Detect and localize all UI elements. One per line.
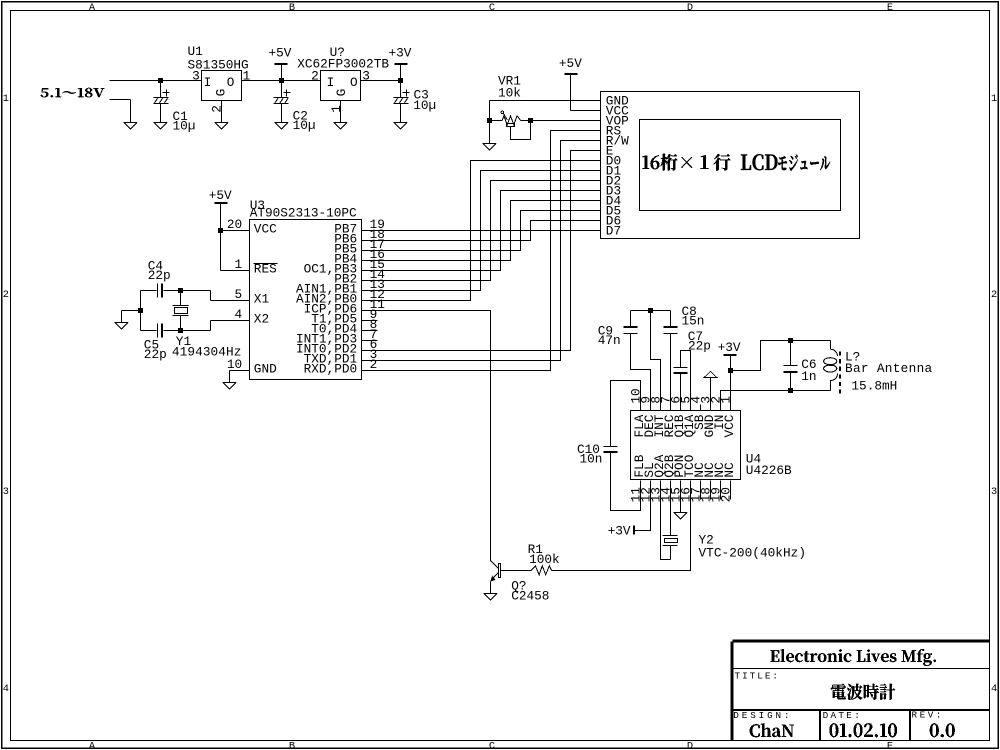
svg-text:15n: 15n xyxy=(682,314,705,329)
svg-text:3: 3 xyxy=(192,69,200,84)
wire stub T1,PD5 xyxy=(362,320,378,322)
power +5V at U3 xyxy=(209,188,232,231)
transistor Q? xyxy=(484,560,500,600)
svg-text:1: 1 xyxy=(991,93,997,105)
label C10 xyxy=(577,442,602,467)
svg-text:10n: 10n xyxy=(580,451,603,466)
wire PB1-D1 xyxy=(362,171,601,291)
capacitor C7 xyxy=(674,351,691,411)
svg-text:22p: 22p xyxy=(688,338,711,353)
label U4 refdes xyxy=(746,451,792,477)
label company name xyxy=(770,649,936,666)
node VR1 left xyxy=(487,118,492,123)
wire R1 to base xyxy=(501,570,532,572)
capacitor C5 xyxy=(141,324,181,338)
wire C10 to FLB pin11 xyxy=(611,453,641,511)
wire X2 route xyxy=(181,330,211,332)
svg-text:I: I xyxy=(204,75,212,90)
svg-text:1: 1 xyxy=(235,257,243,272)
svg-text:2: 2 xyxy=(3,289,9,301)
capacitor C8 xyxy=(664,311,678,411)
row labels left xyxy=(3,93,9,695)
svg-text:15.8mH: 15.8mH xyxy=(851,378,897,393)
svg-text:DESIGN:: DESIGN: xyxy=(733,710,789,721)
wire U1 pin2 to ground xyxy=(215,101,228,130)
wire input return xyxy=(110,99,131,101)
svg-text:10µ: 10µ xyxy=(413,98,436,113)
svg-text:GND: GND xyxy=(254,361,277,376)
title block frame xyxy=(732,641,990,741)
svg-text:47n: 47n xyxy=(598,333,621,348)
svg-text:22p: 22p xyxy=(144,347,167,362)
stub NC pin18 xyxy=(710,481,712,500)
label C9 xyxy=(598,323,621,348)
node Y1 bottom xyxy=(178,328,183,333)
svg-text:O: O xyxy=(350,75,358,90)
wire IN pin2 to tank bottom xyxy=(721,391,831,411)
svg-text:I: I xyxy=(327,75,335,90)
label U1 refdes xyxy=(188,44,249,73)
label date value xyxy=(830,723,897,737)
svg-text:D: D xyxy=(687,2,693,14)
svg-text:B: B xyxy=(289,2,295,14)
capacitor C6 xyxy=(784,341,798,391)
column labels top xyxy=(89,2,893,14)
wire PB4-D4 xyxy=(362,201,601,261)
label C7 xyxy=(688,329,711,354)
wire LCD VCC xyxy=(571,110,601,112)
svg-text:2: 2 xyxy=(311,69,319,84)
U4 top pin numbers xyxy=(629,388,734,403)
svg-text:5: 5 xyxy=(235,287,243,302)
wire X1 route xyxy=(181,290,211,292)
svg-text:100k: 100k xyxy=(529,552,560,567)
stub NC pin19 xyxy=(720,481,722,500)
regulator U1 S81350HG xyxy=(202,71,242,101)
power +3V at U4 VCC xyxy=(718,340,741,411)
wire crystal left leg xyxy=(140,291,142,331)
svg-text:4: 4 xyxy=(235,307,243,322)
power +3V at SL pin12 xyxy=(608,481,651,539)
svg-text:3: 3 xyxy=(991,486,997,498)
wire INT0,PD2 to LCD E xyxy=(362,151,601,351)
wire PB5-D5 xyxy=(362,211,601,251)
svg-text:1: 1 xyxy=(719,396,734,404)
svg-text:E: E xyxy=(887,2,893,14)
node C6 bottom xyxy=(788,388,793,393)
node VR1 right xyxy=(528,118,533,123)
capacitor C9 xyxy=(624,311,651,411)
U4 bottom pin numbers xyxy=(629,487,734,503)
wire LCD GND xyxy=(490,100,601,102)
svg-text:C: C xyxy=(489,2,495,14)
svg-text:D7: D7 xyxy=(606,224,621,239)
wire PB6-D6 xyxy=(362,221,601,241)
wire DEC to INT pin8 xyxy=(651,311,661,411)
ground crystal xyxy=(115,311,140,330)
svg-text:1: 1 xyxy=(329,105,344,113)
svg-text:1n: 1n xyxy=(801,369,816,384)
label U? refdes xyxy=(297,45,389,71)
node rail/C1 junction xyxy=(158,78,163,83)
ground input xyxy=(124,100,137,130)
svg-text:+3V: +3V xyxy=(389,46,412,61)
svg-text:A: A xyxy=(89,741,96,750)
svg-text:G: G xyxy=(334,89,349,97)
wire U1 out to U? xyxy=(242,80,321,82)
node Y1 top xyxy=(178,288,183,293)
svg-text:10µ: 10µ xyxy=(173,119,196,134)
wire TCO pin16 to R1 xyxy=(552,481,691,571)
wire Q2A pin13 to Y2 xyxy=(661,481,671,560)
svg-text:VCC: VCC xyxy=(722,414,737,437)
ground U4 GND pin3 xyxy=(704,371,717,410)
label Y2 xyxy=(699,532,807,560)
svg-text:RXD,PD0: RXD,PD0 xyxy=(304,361,358,376)
capacitor C10 xyxy=(604,446,618,448)
capacitor C2 xyxy=(274,81,291,130)
svg-text:A: A xyxy=(89,2,96,14)
capacitor C1 xyxy=(154,81,170,130)
svg-text:+5V: +5V xyxy=(209,188,232,203)
crystal Y1 xyxy=(173,291,189,331)
resistor R1 xyxy=(531,566,552,575)
node +5V/VCC junction xyxy=(218,228,223,233)
svg-text:C: C xyxy=(489,741,495,750)
label R1 xyxy=(528,542,560,567)
svg-text:NC: NC xyxy=(722,462,737,478)
wire PB7 to LCD D7 xyxy=(362,230,601,232)
svg-text:U4226B: U4226B xyxy=(746,463,792,478)
wire DEC rail xyxy=(631,310,671,312)
radio ic U4 body xyxy=(631,411,741,480)
node rail/C2 junction xyxy=(279,78,284,83)
label U3 refdes xyxy=(250,198,357,221)
label C3 value xyxy=(413,87,436,112)
crystal Y2 xyxy=(663,481,678,560)
label Q? xyxy=(511,579,549,604)
wire VCC pin20 xyxy=(221,230,250,232)
lcd pin names xyxy=(606,94,629,239)
wire stub T0,PD4 xyxy=(362,330,378,332)
capacitor C3 xyxy=(394,81,410,130)
label rev value xyxy=(930,723,955,737)
svg-text:E: E xyxy=(887,741,893,750)
svg-text:10µ: 10µ xyxy=(293,118,316,133)
svg-text:3: 3 xyxy=(362,69,370,84)
svg-text:4: 4 xyxy=(991,683,997,695)
svg-text:+3V: +3V xyxy=(718,340,741,355)
row labels right xyxy=(991,93,997,695)
svg-text:C2458: C2458 xyxy=(511,588,549,603)
svg-text:4: 4 xyxy=(3,683,9,695)
svg-text:VTC-200(40kHz): VTC-200(40kHz) xyxy=(699,545,807,560)
capacitor C4 xyxy=(141,284,181,298)
wire PB2-D2 xyxy=(362,181,601,281)
wire VCC to tank top xyxy=(731,341,831,371)
label C2 value xyxy=(293,109,316,134)
power +5V at LCD xyxy=(559,56,582,111)
wire RXD,PD0 to LCD RS xyxy=(362,131,601,371)
mcu U3 body xyxy=(250,220,362,380)
wire stub INT1,PD3 xyxy=(362,340,378,342)
label LCD 16x1 title xyxy=(642,154,730,171)
svg-text:AT90S2313-10PC: AT90S2313-10PC xyxy=(250,206,357,221)
svg-text:22p: 22p xyxy=(148,268,171,283)
svg-text:4194304Hz: 4194304Hz xyxy=(172,345,242,360)
node DEC rail xyxy=(648,308,653,313)
svg-text:1: 1 xyxy=(3,93,9,105)
stub NC pin17 xyxy=(700,481,702,500)
column labels bottom xyxy=(89,741,893,750)
net 5.1-18V input label xyxy=(41,88,105,97)
svg-text:+5V: +5V xyxy=(559,56,582,71)
label VR1 xyxy=(498,74,521,101)
U4 bottom pin names xyxy=(632,454,737,477)
svg-text:3: 3 xyxy=(3,486,9,498)
label C4 xyxy=(148,258,171,283)
lcd module box xyxy=(601,92,860,239)
U3 left pin names xyxy=(254,221,278,376)
wire to RES pin1 xyxy=(220,231,222,271)
svg-text:D: D xyxy=(687,741,693,750)
inductor L? bar antenna xyxy=(824,341,840,395)
node C6 top xyxy=(788,338,793,343)
potentiometer VR1 xyxy=(490,101,531,144)
regulator U? XC62FP3002TB xyxy=(321,71,361,101)
node crystal left xyxy=(138,308,143,313)
label C1 value xyxy=(173,109,196,134)
wire TXD,PD1 to LCD R/W xyxy=(362,141,601,361)
pin 4 stub xyxy=(700,405,702,411)
svg-text:B: B xyxy=(289,741,295,750)
U3 right pin numbers xyxy=(370,217,386,372)
svg-text:VCC: VCC xyxy=(254,221,277,236)
label L? antenna xyxy=(845,349,933,393)
power +3V rail symbol xyxy=(389,46,412,81)
wire LCD VOP xyxy=(531,120,601,122)
wire FLA pin10 loop xyxy=(611,381,641,447)
wire PB0-D0 xyxy=(362,161,601,301)
U4 top pin names xyxy=(632,414,737,437)
svg-text:DATE:: DATE: xyxy=(823,710,860,721)
label C5 xyxy=(144,338,167,363)
stub NC pin20 xyxy=(730,481,732,500)
svg-text:G: G xyxy=(213,89,228,97)
svg-text:X1: X1 xyxy=(254,291,270,306)
label C8 xyxy=(682,304,705,329)
U3 right pin names xyxy=(296,221,358,376)
ground U3 GND pin10 xyxy=(223,371,249,390)
node VCC/tank junction xyxy=(728,368,733,373)
node rail/C3 junction xyxy=(398,78,403,83)
svg-text:Bar Antenna: Bar Antenna xyxy=(845,361,933,376)
label C6 xyxy=(801,357,816,384)
power +5V rail symbol xyxy=(269,46,292,81)
label Y1 xyxy=(172,334,242,360)
lcd display area xyxy=(640,120,841,211)
svg-text:2: 2 xyxy=(991,289,997,301)
ground PON pin15 xyxy=(674,481,687,520)
label designer ChaN xyxy=(750,723,794,737)
svg-text:2: 2 xyxy=(370,357,378,372)
wire PB3-D3 xyxy=(362,191,601,271)
wire U? out xyxy=(361,80,401,82)
label title 電波時計 xyxy=(831,684,895,700)
svg-text:1: 1 xyxy=(243,69,251,84)
wire ICP,PD6 to Q collector xyxy=(362,311,491,561)
wire U? pin1 to ground xyxy=(334,101,347,130)
svg-text:+5V: +5V xyxy=(269,46,292,61)
wire input + rail xyxy=(110,80,202,82)
svg-text:10k: 10k xyxy=(498,86,521,101)
svg-text:20: 20 xyxy=(227,217,242,232)
svg-text:X2: X2 xyxy=(254,311,269,326)
svg-text:O: O xyxy=(227,75,235,90)
svg-text:+3V: +3V xyxy=(608,523,631,538)
ground VR1 xyxy=(483,144,496,151)
svg-text:2: 2 xyxy=(210,105,225,113)
